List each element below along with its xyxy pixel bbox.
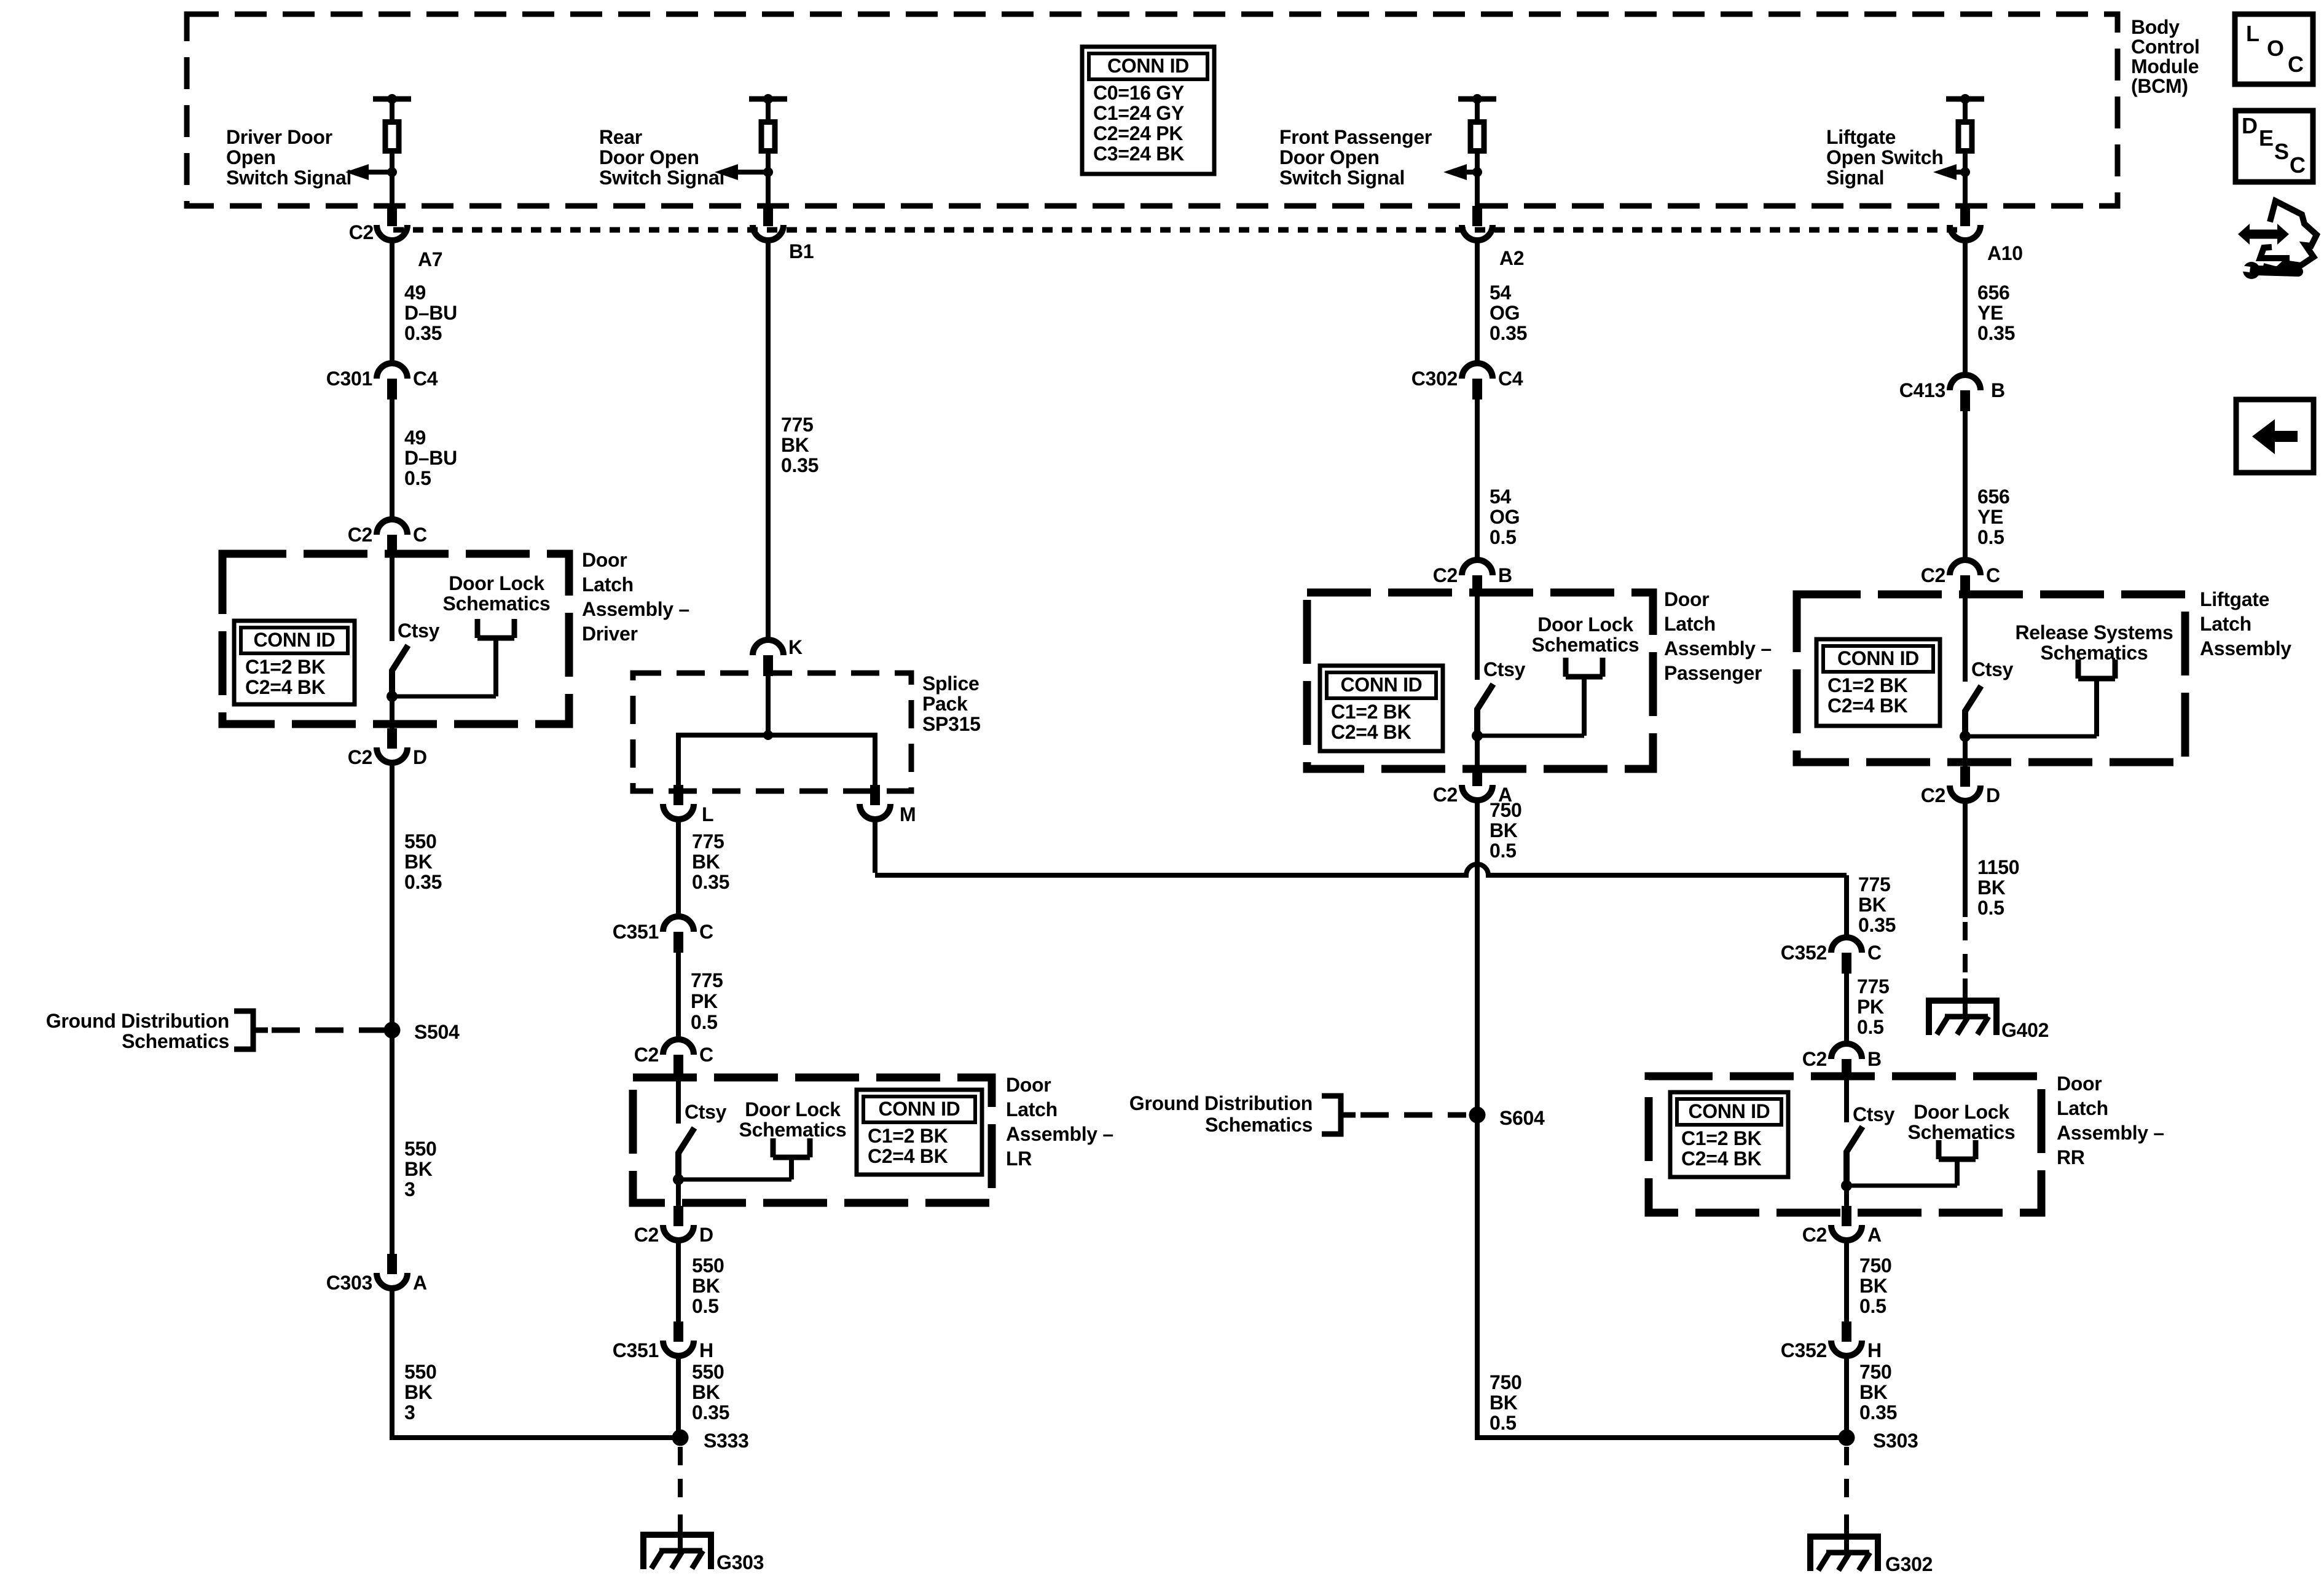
svg-text:Door: Door: [1006, 1074, 1051, 1096]
wire label 775 BK 0.35 rear: [781, 414, 819, 476]
wire 775 BK 0.35 rear: [766, 241, 771, 640]
dashed drop to G402: [1963, 922, 1968, 974]
svg-text:K: K: [788, 636, 803, 658]
connector C302 pin C4: [1462, 363, 1493, 400]
svg-text:Pack: Pack: [922, 693, 968, 715]
svg-text:C2=4 BK: C2=4 BK: [245, 676, 326, 698]
svg-text:H: H: [699, 1339, 713, 1361]
svg-text:G302: G302: [1885, 1553, 1933, 1575]
svg-text:C413: C413: [1899, 379, 1945, 401]
dashed drop to G303: [678, 1447, 683, 1507]
Ctsy switch RR: [1841, 1076, 1976, 1191]
Ctsy switch passenger: [1472, 593, 1603, 741]
Door Latch Assembly - Driver label: [582, 549, 689, 645]
wire label 750 BK 0.5 passenger lower: [1490, 1371, 1522, 1434]
svg-text:D: D: [2242, 113, 2258, 138]
resistor rear door open switch (BCM internal): [715, 94, 787, 207]
Driver Door Open Switch Signal label: [226, 126, 351, 189]
splice S504: [384, 1022, 401, 1039]
wire 49 D-BU 0.5: [390, 400, 395, 520]
svg-text:PK: PK: [1857, 996, 1884, 1018]
wire label 775 PK 0.5 LR: [691, 969, 723, 1033]
svg-text:Switch Signal: Switch Signal: [599, 167, 724, 189]
svg-text:0.5: 0.5: [1490, 840, 1517, 862]
CONN ID table BCM: [1082, 47, 1214, 174]
svg-text:CONN ID: CONN ID: [1688, 1100, 1770, 1122]
svg-text:L: L: [2246, 21, 2259, 46]
svg-text:Door: Door: [2057, 1073, 2102, 1095]
svg-text:775: 775: [781, 414, 814, 436]
svg-text:C2: C2: [1802, 1048, 1827, 1070]
CONN ID liftgate latch: [1816, 639, 1940, 726]
svg-text:Switch Signal: Switch Signal: [1279, 167, 1405, 189]
svg-text:B1: B1: [789, 240, 814, 262]
svg-text:C2=24 PK: C2=24 PK: [1093, 122, 1183, 144]
svg-text:775: 775: [691, 969, 723, 991]
Liftgate Open Switch Signal label: [1826, 126, 1944, 189]
svg-text:Door Lock: Door Lock: [449, 572, 544, 594]
wire label 49 D-BU 0.5: [404, 427, 457, 489]
svg-text:Body: Body: [2131, 16, 2180, 38]
connector C2 pin C (liftgate latch): [1950, 560, 1981, 596]
splice bus: [678, 733, 875, 738]
svg-text:0.5: 0.5: [1977, 897, 2004, 919]
svg-text:BK: BK: [1859, 1381, 1888, 1403]
splice S604: [1469, 1107, 1486, 1124]
svg-text:D: D: [413, 746, 427, 768]
Door Latch Assembly - LR label: [1006, 1074, 1113, 1170]
wire 550 BK 3 upper: [390, 1030, 395, 1259]
svg-text:L: L: [702, 803, 713, 825]
svg-text:Door Open: Door Open: [1279, 146, 1380, 168]
svg-text:PK: PK: [691, 990, 718, 1012]
Door Lock Schematics tap LR: [739, 1098, 847, 1141]
svg-text:0.5: 0.5: [692, 1295, 719, 1317]
svg-text:S604: S604: [1499, 1107, 1545, 1129]
svg-text:C: C: [2290, 152, 2306, 178]
wire label 550 BK 0.35 LR lower: [692, 1361, 729, 1423]
dashed link to S604: [1360, 1112, 1466, 1118]
svg-text:C4: C4: [413, 368, 438, 390]
svg-text:C2: C2: [1921, 784, 1945, 806]
wire 49 D-BU 0.35: [390, 241, 395, 364]
svg-text:Module: Module: [2131, 55, 2199, 77]
wire 750 BK 0.35 RR: [1844, 1357, 1849, 1438]
wire label 1150 BK 0.5: [1977, 856, 2019, 919]
wire label 550 BK 0.35: [404, 830, 442, 893]
svg-text:(BCM): (BCM): [2131, 75, 2188, 97]
connector C2 pin C (LR latch): [663, 1039, 694, 1076]
svg-text:0.35: 0.35: [1977, 322, 2015, 344]
connector C2 pin A (passenger latch out): [1462, 766, 1493, 800]
svg-text:Door: Door: [582, 549, 627, 571]
svg-text:0.5: 0.5: [1859, 1295, 1886, 1317]
wire label 775 BK 0.35 LR: [692, 830, 729, 893]
svg-text:A: A: [1867, 1224, 1882, 1246]
connector C2 pin A (RR latch out): [1831, 1206, 1862, 1240]
wire 550 BK 0.5 LR: [676, 1241, 681, 1323]
wire label 49 D-BU 0.35: [404, 282, 457, 344]
svg-text:550: 550: [404, 1361, 437, 1383]
svg-text:Signal: Signal: [1826, 167, 1884, 189]
svg-text:1150: 1150: [1977, 856, 2019, 878]
svg-text:C: C: [2288, 52, 2304, 77]
svg-text:Liftgate: Liftgate: [1826, 126, 1896, 148]
svg-text:C: C: [699, 921, 713, 943]
svg-text:Latch: Latch: [582, 573, 634, 596]
svg-text:0.5: 0.5: [404, 467, 431, 489]
svg-text:C: C: [699, 1044, 713, 1066]
Door Latch Assembly - RR dashed box: [1649, 1076, 2041, 1213]
connector pin A10 (BCM): [1950, 206, 1981, 240]
svg-text:C301: C301: [326, 368, 372, 390]
svg-text:Door Open: Door Open: [599, 146, 699, 168]
svg-text:BK: BK: [1490, 819, 1518, 841]
svg-text:Open Switch: Open Switch: [1826, 146, 1944, 168]
svg-text:CONN ID: CONN ID: [1107, 55, 1189, 77]
svg-text:BK: BK: [692, 1275, 720, 1297]
svg-text:Control: Control: [2131, 36, 2200, 58]
svg-text:Ctsy: Ctsy: [1971, 658, 2014, 680]
svg-text:Schematics: Schematics: [1532, 634, 1639, 656]
svg-text:3: 3: [404, 1401, 415, 1423]
svg-text:C1=2 BK: C1=2 BK: [1681, 1127, 1762, 1149]
wire to C2 D: [390, 696, 395, 728]
svg-text:BK: BK: [1490, 1392, 1518, 1414]
connector pin B1 (BCM): [753, 206, 783, 240]
wire to C2 A passenger: [1475, 736, 1480, 767]
svg-text:Assembly –: Assembly –: [1664, 637, 1772, 660]
svg-text:Door Lock: Door Lock: [1537, 613, 1633, 636]
svg-text:Ctsy: Ctsy: [1483, 658, 1526, 680]
wire label 656 YE 0.35: [1977, 282, 2015, 344]
svg-text:0.35: 0.35: [692, 871, 729, 893]
connector C2 pin D (liftgate latch out): [1950, 766, 1981, 801]
splice S333: [672, 1430, 689, 1446]
CONN ID LR latch: [857, 1090, 982, 1175]
Door Latch Assembly - Passenger dashed box: [1307, 593, 1653, 769]
wire 54 OG 0.5: [1475, 400, 1480, 561]
svg-text:CONN ID: CONN ID: [878, 1098, 960, 1120]
svg-text:S504: S504: [414, 1021, 460, 1043]
connector C2 pin D (driver latch out): [377, 728, 407, 763]
connector C2 pin B (passenger latch): [1462, 560, 1493, 596]
Door Lock Schematics tap passenger: [1532, 613, 1639, 656]
svg-text:550: 550: [692, 1254, 724, 1277]
svg-text:C351: C351: [613, 1339, 659, 1361]
svg-text:750: 750: [1859, 1361, 1892, 1383]
svg-text:SP315: SP315: [922, 713, 981, 735]
svg-text:0.5: 0.5: [1857, 1016, 1884, 1038]
svg-text:C: C: [1867, 942, 1882, 964]
svg-text:C: C: [1986, 564, 2000, 586]
CONN ID passenger latch: [1320, 666, 1443, 751]
svg-text:G402: G402: [2001, 1019, 2049, 1041]
wire 1150 BK 0.5: [1963, 801, 1968, 917]
svg-text:Ctsy: Ctsy: [398, 620, 440, 642]
service/repair icon (double arrow + wrench): [2238, 201, 2317, 279]
svg-text:OG: OG: [1490, 302, 1520, 324]
connector C2 pin B (RR latch): [1831, 1044, 1862, 1080]
connector C2 pin D (LR latch out): [663, 1206, 694, 1240]
svg-text:Assembly –: Assembly –: [582, 598, 689, 620]
svg-text:C4: C4: [1498, 368, 1523, 390]
connector C301 pin C4: [377, 363, 407, 400]
svg-text:550: 550: [692, 1361, 724, 1383]
svg-text:0.35: 0.35: [781, 454, 819, 476]
svg-text:OG: OG: [1490, 506, 1520, 528]
wire 54 OG 0.35: [1475, 241, 1480, 364]
svg-text:Liftgate: Liftgate: [2200, 588, 2269, 610]
connector C351 pin C: [663, 916, 694, 953]
svg-text:Latch: Latch: [1006, 1098, 1058, 1120]
svg-text:Ground Distribution: Ground Distribution: [1129, 1092, 1313, 1114]
wire label 750 BK 0.5 passenger: [1490, 799, 1522, 862]
wire label 54 OG 0.35: [1490, 282, 1527, 344]
svg-text:C2: C2: [1433, 564, 1458, 586]
svg-text:Door Lock: Door Lock: [1914, 1101, 2009, 1123]
svg-text:Schematics: Schematics: [1205, 1114, 1313, 1136]
wire label 550 BK 3: [404, 1138, 437, 1200]
svg-text:3: 3: [404, 1178, 415, 1200]
connector C352 pin H: [1831, 1321, 1862, 1356]
svg-text:775: 775: [1858, 873, 1891, 896]
connector C352 pin C: [1831, 937, 1862, 974]
svg-text:C2: C2: [1802, 1224, 1827, 1246]
wire label 750 BK 0.5 RR: [1859, 1254, 1892, 1317]
svg-text:A10: A10: [1987, 242, 2023, 264]
svg-text:Ctsy: Ctsy: [1853, 1103, 1895, 1125]
wire to C2 D LR: [676, 1179, 681, 1207]
wire label 750 BK 0.35 RR lower: [1859, 1361, 1897, 1423]
svg-text:Latch: Latch: [2200, 613, 2251, 635]
Ground Distribution Schematics label left: [46, 1010, 229, 1052]
svg-text:C352: C352: [1781, 942, 1827, 964]
svg-text:C351: C351: [613, 921, 659, 943]
Splice Pack SP315 dashed box: [633, 673, 911, 791]
ground stub G302: [1844, 1514, 1849, 1553]
svg-text:S333: S333: [704, 1430, 749, 1452]
wire label 656 YE 0.5: [1977, 486, 2010, 548]
svg-text:C1=24 GY: C1=24 GY: [1093, 102, 1184, 124]
svg-text:A2: A2: [1499, 247, 1524, 269]
svg-text:0.5: 0.5: [691, 1011, 718, 1033]
svg-text:0.35: 0.35: [1858, 914, 1896, 936]
svg-text:C2: C2: [348, 746, 372, 768]
svg-text:0.35: 0.35: [1490, 322, 1527, 344]
wire label 775 BK 0.35 RR: [1858, 873, 1896, 936]
wire 550 BK 3 lower: [390, 1289, 395, 1438]
svg-text:Assembly –: Assembly –: [1006, 1123, 1113, 1145]
resistor liftgate open switch (BCM internal): [1933, 94, 1984, 207]
svg-text:D: D: [699, 1224, 713, 1246]
wire label 550 BK 0.5 LR: [692, 1254, 724, 1317]
wire 775 PK 0.5 LR: [676, 953, 681, 1040]
svg-text:0.35: 0.35: [404, 871, 442, 893]
connector C2 pin C (driver latch): [377, 519, 407, 556]
Ground Distribution Schematics label right: [1129, 1092, 1313, 1136]
wire label 54 OG 0.5: [1490, 486, 1520, 548]
Front Passenger Door Open Switch Signal label: [1279, 126, 1432, 189]
connector C351 pin H: [663, 1321, 694, 1356]
svg-text:D: D: [1986, 784, 2000, 806]
svg-text:D–BU: D–BU: [404, 447, 457, 469]
svg-text:54: 54: [1490, 282, 1511, 304]
svg-text:M: M: [900, 803, 916, 825]
connector C2 pin A7 (BCM): [377, 206, 407, 240]
Ctsy switch LR: [673, 1077, 810, 1185]
svg-text:Open: Open: [226, 146, 276, 168]
ground G302: [1810, 1537, 1878, 1571]
splice S303: [1839, 1430, 1855, 1446]
Door Latch Assembly - Driver dashed box: [222, 554, 569, 724]
dashed drop to G302: [1844, 1447, 1849, 1507]
wire 775 PK 0.5 RR: [1844, 974, 1849, 1044]
svg-text:YE: YE: [1977, 506, 2003, 528]
svg-text:C1=2 BK: C1=2 BK: [1827, 674, 1908, 696]
bus left drop: [676, 733, 681, 785]
svg-text:0.5: 0.5: [1977, 526, 2004, 548]
connector pin L: [663, 785, 694, 819]
svg-text:C2=4 BK: C2=4 BK: [1827, 695, 1908, 717]
svg-text:CONN ID: CONN ID: [253, 629, 335, 651]
connector pin K (splice pack): [753, 640, 783, 676]
svg-text:E: E: [2259, 125, 2274, 151]
svg-text:550: 550: [404, 1138, 437, 1160]
svg-text:C2=4 BK: C2=4 BK: [868, 1145, 948, 1167]
svg-text:656: 656: [1977, 486, 2010, 508]
svg-text:O: O: [2267, 36, 2284, 61]
connector pin M: [860, 785, 890, 819]
wire 750 BK 0.5 passenger lower: [1475, 1115, 1480, 1438]
svg-text:Switch Signal: Switch Signal: [226, 167, 351, 189]
Ctsy switch liftgate: [1960, 594, 2115, 742]
svg-text:D–BU: D–BU: [404, 302, 457, 324]
connector C303 pin A: [377, 1254, 407, 1288]
BCM label: [2131, 16, 2200, 97]
svg-text:Door: Door: [1664, 588, 1709, 610]
svg-text:0.35: 0.35: [404, 322, 442, 344]
resistor driver door open switch (BCM internal): [345, 94, 411, 207]
bus right drop: [873, 733, 877, 785]
wire 750 BK 0.5 passenger upper: [1475, 801, 1480, 1115]
svg-text:BK: BK: [692, 851, 720, 873]
svg-text:Door Lock: Door Lock: [745, 1098, 841, 1120]
CONN ID driver latch: [234, 621, 355, 704]
wire 550 BK 0.35: [390, 763, 395, 1030]
ground G402: [1929, 1001, 1996, 1035]
svg-text:Front Passenger: Front Passenger: [1279, 126, 1432, 148]
svg-text:B: B: [1867, 1048, 1882, 1070]
svg-text:BK: BK: [1859, 1275, 1888, 1297]
svg-text:Driver Door: Driver Door: [226, 126, 332, 148]
svg-text:A7: A7: [418, 248, 442, 270]
svg-text:49: 49: [404, 427, 426, 449]
Release Systems Schematics tap: [2015, 621, 2173, 664]
svg-text:Ctsy: Ctsy: [685, 1101, 727, 1123]
splice bus junction dot: [763, 730, 773, 740]
svg-text:Schematics: Schematics: [1908, 1121, 2016, 1143]
svg-text:C3=24 BK: C3=24 BK: [1093, 143, 1184, 165]
Rear Door Open Switch Signal label: [599, 126, 724, 189]
svg-text:C2: C2: [348, 524, 372, 546]
svg-text:Schematics: Schematics: [122, 1030, 229, 1052]
connector C413 pin B: [1950, 375, 1981, 411]
svg-text:49: 49: [404, 282, 426, 304]
wire splice M to RR door latch (with hop over passenger wire): [873, 820, 877, 873]
svg-text:RR: RR: [2057, 1146, 2085, 1168]
svg-text:CONN ID: CONN ID: [1837, 647, 1919, 669]
dotted BCM connector line: [393, 227, 1958, 233]
ground stub G402: [1963, 979, 1968, 1017]
svg-text:C1=2 BK: C1=2 BK: [868, 1125, 948, 1147]
ground stub G303: [678, 1514, 683, 1551]
svg-text:S: S: [2274, 139, 2289, 164]
svg-text:BK: BK: [1858, 894, 1886, 916]
svg-text:B: B: [1991, 379, 2005, 401]
bracket ground distribution right: [1322, 1096, 1356, 1134]
Door Lock Schematics tap RR: [1908, 1101, 2016, 1143]
svg-text:C2: C2: [634, 1044, 659, 1066]
svg-text:C2: C2: [349, 221, 374, 243]
wire 750 BK 0.5 RR: [1844, 1241, 1849, 1323]
back arrow nav box: [2236, 400, 2314, 473]
svg-text:BK: BK: [781, 434, 809, 456]
svg-text:0.35: 0.35: [1859, 1401, 1897, 1423]
svg-text:0.5: 0.5: [1490, 1412, 1517, 1434]
svg-text:750: 750: [1859, 1254, 1892, 1277]
svg-text:775: 775: [692, 830, 724, 853]
Liftgate Latch Assembly dashed box: [1797, 594, 2185, 762]
svg-text:B: B: [1498, 564, 1512, 586]
wire 656 YE 0.5: [1963, 411, 1968, 561]
svg-text:750: 750: [1490, 799, 1522, 821]
ground G303: [643, 1535, 711, 1569]
svg-text:BK: BK: [404, 1381, 433, 1403]
Ctsy switch driver: [387, 554, 514, 702]
svg-text:C303: C303: [326, 1272, 372, 1294]
svg-text:Latch: Latch: [2057, 1097, 2108, 1119]
svg-text:C1=2 BK: C1=2 BK: [1331, 701, 1411, 723]
DESC nav box: [2236, 111, 2313, 182]
svg-text:C2: C2: [1433, 784, 1458, 806]
wire 775 BK 0.35 LR: [676, 820, 681, 917]
svg-text:BK: BK: [1977, 876, 2006, 899]
wire to C2 A RR: [1844, 1186, 1849, 1207]
svg-text:CONN ID: CONN ID: [1340, 674, 1422, 696]
svg-text:0.5: 0.5: [1490, 526, 1517, 548]
wire label 550 BK 3 lower: [404, 1361, 437, 1423]
svg-text:775: 775: [1857, 975, 1890, 998]
dashed link to S504: [272, 1028, 384, 1033]
svg-text:C2=4 BK: C2=4 BK: [1331, 721, 1411, 743]
svg-text:54: 54: [1490, 486, 1511, 508]
svg-text:Rear: Rear: [599, 126, 642, 148]
svg-text:C2: C2: [1921, 564, 1945, 586]
Door Lock Schematics tap driver: [443, 572, 551, 615]
wire to S303: [1475, 1435, 1847, 1440]
svg-text:Schematics: Schematics: [739, 1119, 847, 1141]
svg-text:0.35: 0.35: [692, 1401, 729, 1423]
svg-text:BK: BK: [692, 1381, 720, 1403]
svg-text:Driver: Driver: [582, 623, 638, 645]
svg-text:S303: S303: [1873, 1430, 1918, 1452]
wire 656 YE 0.35: [1963, 241, 1968, 376]
svg-text:Latch: Latch: [1664, 613, 1716, 635]
wire 550 BK 0.35 LR: [676, 1357, 681, 1438]
svg-text:C1=2 BK: C1=2 BK: [245, 656, 326, 678]
svg-text:Passenger: Passenger: [1664, 662, 1762, 684]
